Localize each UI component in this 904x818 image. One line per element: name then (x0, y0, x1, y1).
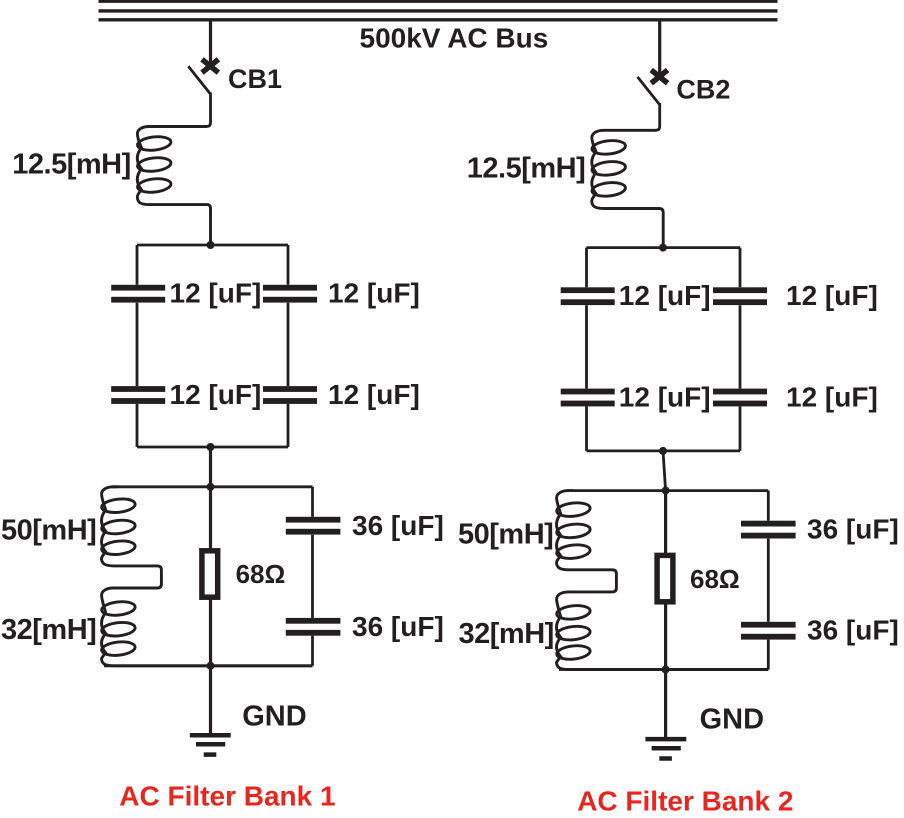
circuit breaker CB2 blade (638, 77, 660, 105)
svg-text:36 [uF]: 36 [uF] (352, 510, 444, 541)
svg-text:12 [uF]: 12 [uF] (170, 379, 262, 410)
svg-text:GND: GND (700, 704, 764, 736)
bus line 1 (500kV AC bus, top conductor) (99, 0, 778, 3)
resistor R2 68 ohm (bank2) (657, 555, 673, 601)
bus line 3 (500kV AC bus, bottom conductor) (99, 18, 778, 21)
wire LP filter top rail (bank2) (567, 489, 768, 492)
capacitor C4 12[uF] (bank1 right bottom) (263, 386, 317, 392)
junction dot (bank2 LP filter bottom) (662, 666, 670, 674)
junction dot (bank2 LP filter top) (662, 487, 670, 495)
wire CB2 to inductor L4 (656, 103, 660, 130)
inductor L6 32[mH] (bank2) (556, 592, 768, 670)
svg-text:50[mH]: 50[mH] (458, 518, 553, 550)
svg-text:50[mH]: 50[mH] (1, 514, 96, 546)
capacitor C12 36[uF] (bank2 LP bottom) (741, 622, 796, 628)
svg-text:68Ω: 68Ω (236, 559, 286, 589)
wire cap network top rail (bank1) (137, 244, 288, 247)
svg-text:12 [uF]: 12 [uF] (170, 277, 262, 308)
capacitor C11 36[uF] (bank2 LP top) (741, 521, 796, 527)
wire bus to CB2 (658, 20, 661, 77)
ground symbol (bank1) (190, 735, 231, 754)
wire right cap branch segments (bank1) (287, 245, 290, 285)
junction dot (bank1 cap network bottom) (207, 443, 215, 451)
svg-text:68Ω: 68Ω (690, 564, 740, 594)
svg-text:AC Filter Bank 1: AC Filter Bank 1 (119, 781, 335, 812)
svg-text:500kV AC Bus: 500kV AC Bus (360, 23, 549, 54)
svg-text:32[mH]: 32[mH] (1, 614, 96, 646)
circuit breaker CB1 blade (188, 66, 210, 94)
capacitor C10 12[uF] (bank2 right bottom) (713, 389, 767, 395)
bus line 2 (500kV AC bus, middle conductor) (99, 9, 778, 12)
svg-text:CB1: CB1 (228, 64, 282, 94)
junction dot (bank1 LP filter bottom) (207, 662, 215, 670)
junction dot (bank2 cap network bottom) (659, 447, 667, 455)
circuit breaker CB2 contact X (651, 70, 667, 83)
capacitor C1 12[uF] (bank1 left top) (111, 285, 165, 291)
wire LP filter bottom rail (bank1) (104, 664, 313, 667)
wire bus to CB1 (209, 20, 212, 66)
wire left cap branch segments (bank2) (585, 248, 588, 288)
svg-text:12 [uF]: 12 [uF] (328, 277, 420, 308)
svg-text:32[mH]: 32[mH] (459, 618, 554, 650)
svg-text:12.5[mH]: 12.5[mH] (12, 149, 131, 181)
svg-text:36 [uF]: 36 [uF] (807, 615, 899, 646)
wire cap network bottom rail (bank2) (587, 449, 741, 452)
capacitor C5 36[uF] (bank1 LP top) (286, 517, 341, 523)
wire cap network top rail (bank2) (587, 246, 741, 249)
capacitor C2 12[uF] (bank1 left bottom) (111, 386, 165, 392)
wire right cap branch of LP filter (bank1) (311, 487, 314, 517)
resistor R1 68 ohm (bank1) (202, 551, 218, 597)
svg-text:12 [uF]: 12 [uF] (328, 379, 420, 410)
wire cap network to LP filter (bank1) (209, 447, 212, 487)
svg-text:AC Filter Bank 2: AC Filter Bank 2 (577, 786, 793, 817)
inductor L4 12.5[mH] (bank2) (592, 130, 663, 247)
junction dot (bank1 cap network top) (207, 241, 215, 249)
svg-text:12 [uF]: 12 [uF] (619, 382, 711, 413)
junction dot (bank1 LP filter top) (207, 483, 215, 491)
inductor L1 12.5[mH] (137, 127, 210, 246)
capacitor C9 12[uF] (bank2 right top) (713, 287, 767, 293)
circuit breaker CB1 contact X (202, 59, 218, 72)
inductor L3 32[mH] (bank1) (101, 588, 312, 666)
wire to ground (bank1) (209, 666, 212, 735)
wire right cap branch of LP filter (bank2) (767, 491, 770, 521)
wire to ground (bank2) (664, 670, 667, 740)
capacitor C7 12[uF] (bank2 left top) (561, 287, 615, 293)
svg-text:CB2: CB2 (676, 75, 730, 105)
wire LP filter bottom rail (bank2) (559, 668, 768, 671)
wire resistor branch (bank1) (209, 487, 212, 666)
wire left cap branch segments (bank1) (136, 245, 139, 285)
wire cap network to LP filter (bank2) (663, 451, 666, 491)
inductor L5 50[mH] (bank2) (556, 491, 616, 592)
wire right cap branch segments (bank2) (739, 248, 742, 288)
capacitor C8 12[uF] (bank2 left bottom) (561, 389, 615, 395)
svg-text:12 [uF]: 12 [uF] (786, 280, 878, 311)
junction dot (bank2 cap network top) (659, 244, 667, 252)
svg-text:36 [uF]: 36 [uF] (807, 514, 899, 545)
svg-text:12.5[mH]: 12.5[mH] (467, 152, 586, 184)
wire cap network bottom rail (bank1) (137, 446, 288, 449)
capacitor C3 12[uF] (bank1 right top) (263, 285, 317, 291)
svg-text:12 [uF]: 12 [uF] (619, 280, 711, 311)
capacitor C6 36[uF] (bank1 LP bottom) (286, 618, 341, 624)
inductor L2 50[mH] (bank1) (101, 487, 161, 588)
wire CB1 to inductor L1 (207, 93, 211, 127)
ground symbol (bank2) (645, 739, 686, 758)
svg-text:GND: GND (242, 700, 306, 732)
wire resistor branch (bank2) (664, 491, 667, 670)
wire LP filter top rail (bank1) (112, 485, 313, 488)
svg-text:36 [uF]: 36 [uF] (352, 611, 444, 642)
svg-text:12 [uF]: 12 [uF] (786, 382, 878, 413)
